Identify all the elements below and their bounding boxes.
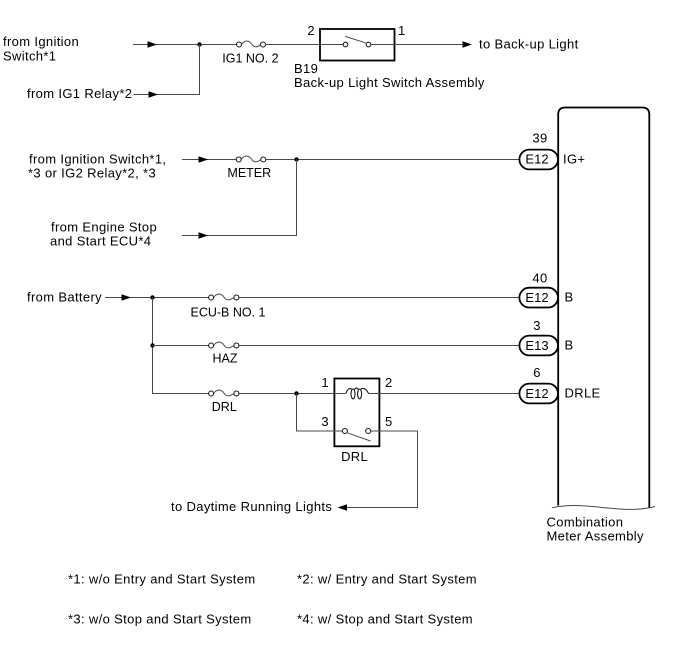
svg-text:Meter Assembly: Meter Assembly: [547, 529, 645, 544]
fuse HAZ: [209, 342, 239, 348]
switch B19 box: [320, 29, 395, 61]
svg-text:B: B: [565, 338, 574, 353]
svg-text:2: 2: [307, 23, 315, 38]
connector E12 pin 6: [519, 384, 558, 404]
wire: IG1 relay feed up to junction: [133, 45, 199, 98]
svg-text:DRL: DRL: [212, 400, 237, 414]
fuse ECU-B NO. 1: [209, 294, 239, 300]
component label: B19 Back-up Light Switch Assembly: [294, 61, 485, 90]
node: battery bus junction HAZ: [150, 343, 154, 347]
svg-text:DRLE: DRLE: [565, 386, 601, 401]
node: from Ignition Switch / IG2 Relay label: [28, 152, 166, 181]
wire: relay pin 2 to connector E12 pin 6: [368, 393, 519, 395]
combination meter assembly box: [552, 108, 655, 510]
svg-text:3: 3: [321, 414, 329, 429]
svg-text:ECU-B NO. 1: ECU-B NO. 1: [190, 305, 265, 319]
connector E12 pin 39: [519, 150, 558, 170]
svg-text:and Start ECU*4: and Start ECU*4: [50, 234, 151, 249]
wire: ignition feed to fuse METER: [182, 156, 236, 162]
node: junction of ignition switch and IG1 relay feeds: [197, 42, 201, 46]
svg-text:HAZ: HAZ: [213, 351, 238, 365]
svg-text:from Engine Stop: from Engine Stop: [51, 220, 157, 235]
switch contacts inside B19: [343, 36, 371, 46]
svg-text:E12: E12: [525, 151, 548, 166]
svg-text:to Daytime Running Lights: to Daytime Running Lights: [171, 499, 332, 514]
wire: HAZ branch to fuse: [153, 345, 209, 347]
svg-text:*3: w/o Stop and Start System: *3: w/o Stop and Start System: [68, 612, 252, 627]
wire: fuse ECU-B NO.1 to connector E12 pin 40: [239, 297, 519, 299]
svg-text:3: 3: [533, 318, 541, 333]
svg-text:*3 or IG2 Relay*2, *3: *3 or IG2 Relay*2, *3: [28, 166, 156, 181]
wire: fuse METER to connector E12 pin 39: [266, 159, 519, 161]
svg-text:Switch*1: Switch*1: [3, 49, 56, 64]
fuse METER: [236, 156, 266, 162]
svg-text:E12: E12: [525, 290, 548, 305]
svg-text:from Battery: from Battery: [27, 290, 102, 305]
wire: engine stop ECU feed to junction: [182, 160, 297, 239]
svg-text:*4: w/ Stop and Start System: *4: w/ Stop and Start System: [297, 612, 473, 627]
svg-text:6: 6: [533, 365, 541, 380]
connector E13 pin 3: [519, 336, 558, 356]
svg-text:IG1 NO. 2: IG1 NO. 2: [222, 51, 278, 65]
wire: fuse IG1 NO.2 to switch B19: [266, 44, 344, 46]
component label: Combination Meter Assembly: [547, 515, 645, 544]
svg-text:to Back-up Light: to Back-up Light: [479, 37, 579, 52]
fuse IG1 NO. 2: [237, 41, 266, 47]
svg-text:DRL: DRL: [341, 449, 368, 464]
wire: fuse HAZ to connector E13 pin 3: [239, 345, 519, 347]
connector E12 pin 40: [519, 288, 558, 308]
wire: relay pin 5 down to daytime running lights: [338, 431, 418, 511]
svg-text:40: 40: [532, 271, 547, 286]
fuse DRL: [209, 390, 239, 396]
svg-text:Combination: Combination: [547, 515, 624, 530]
svg-text:1: 1: [321, 375, 329, 390]
svg-text:39: 39: [532, 131, 547, 146]
svg-text:B19: B19: [294, 61, 318, 76]
wire: fuse DRL to relay DRL pin 1: [239, 393, 346, 395]
svg-text:from Ignition: from Ignition: [3, 34, 79, 49]
svg-text:Back-up Light Switch Assembly: Back-up Light Switch Assembly: [294, 75, 485, 90]
relay DRL box: [334, 379, 379, 447]
node: from Engine Stop and Start ECU*4 label: [50, 220, 157, 249]
node: junction METER wire / engine stop ECU wire: [294, 157, 298, 161]
svg-text:E13: E13: [525, 338, 548, 353]
node: junction DRL wire / relay coil branch: [294, 391, 298, 395]
svg-text:1: 1: [398, 23, 406, 38]
svg-text:B: B: [565, 290, 574, 305]
svg-text:METER: METER: [227, 166, 271, 180]
relay DRL switch contacts: [342, 429, 370, 442]
wire: battery feed to fuse ECU-B NO. 1: [105, 294, 209, 300]
wire: battery bus vertical: [153, 298, 209, 394]
node: from Ignition Switch*1 label: [3, 34, 79, 64]
wire: junction down to relay pin 3: [297, 394, 343, 432]
svg-text:E12: E12: [525, 386, 548, 401]
relay DRL coil: [346, 388, 369, 399]
svg-text:5: 5: [385, 414, 393, 429]
wire: ignition switch feed to fuse IG1 NO. 2: [133, 41, 237, 47]
svg-text:IG+: IG+: [563, 152, 585, 167]
svg-text:*2: w/ Entry and Start System: *2: w/ Entry and Start System: [297, 572, 477, 587]
svg-text:2: 2: [385, 375, 393, 390]
node: battery bus junction top: [150, 295, 154, 299]
svg-text:from IG1 Relay*2: from IG1 Relay*2: [27, 86, 132, 101]
wire: B19 pin1 to Back-up Light: [371, 41, 472, 47]
svg-text:from Ignition Switch*1,: from Ignition Switch*1,: [29, 152, 166, 167]
svg-text:*1: w/o Entry and Start System: *1: w/o Entry and Start System: [68, 572, 256, 587]
